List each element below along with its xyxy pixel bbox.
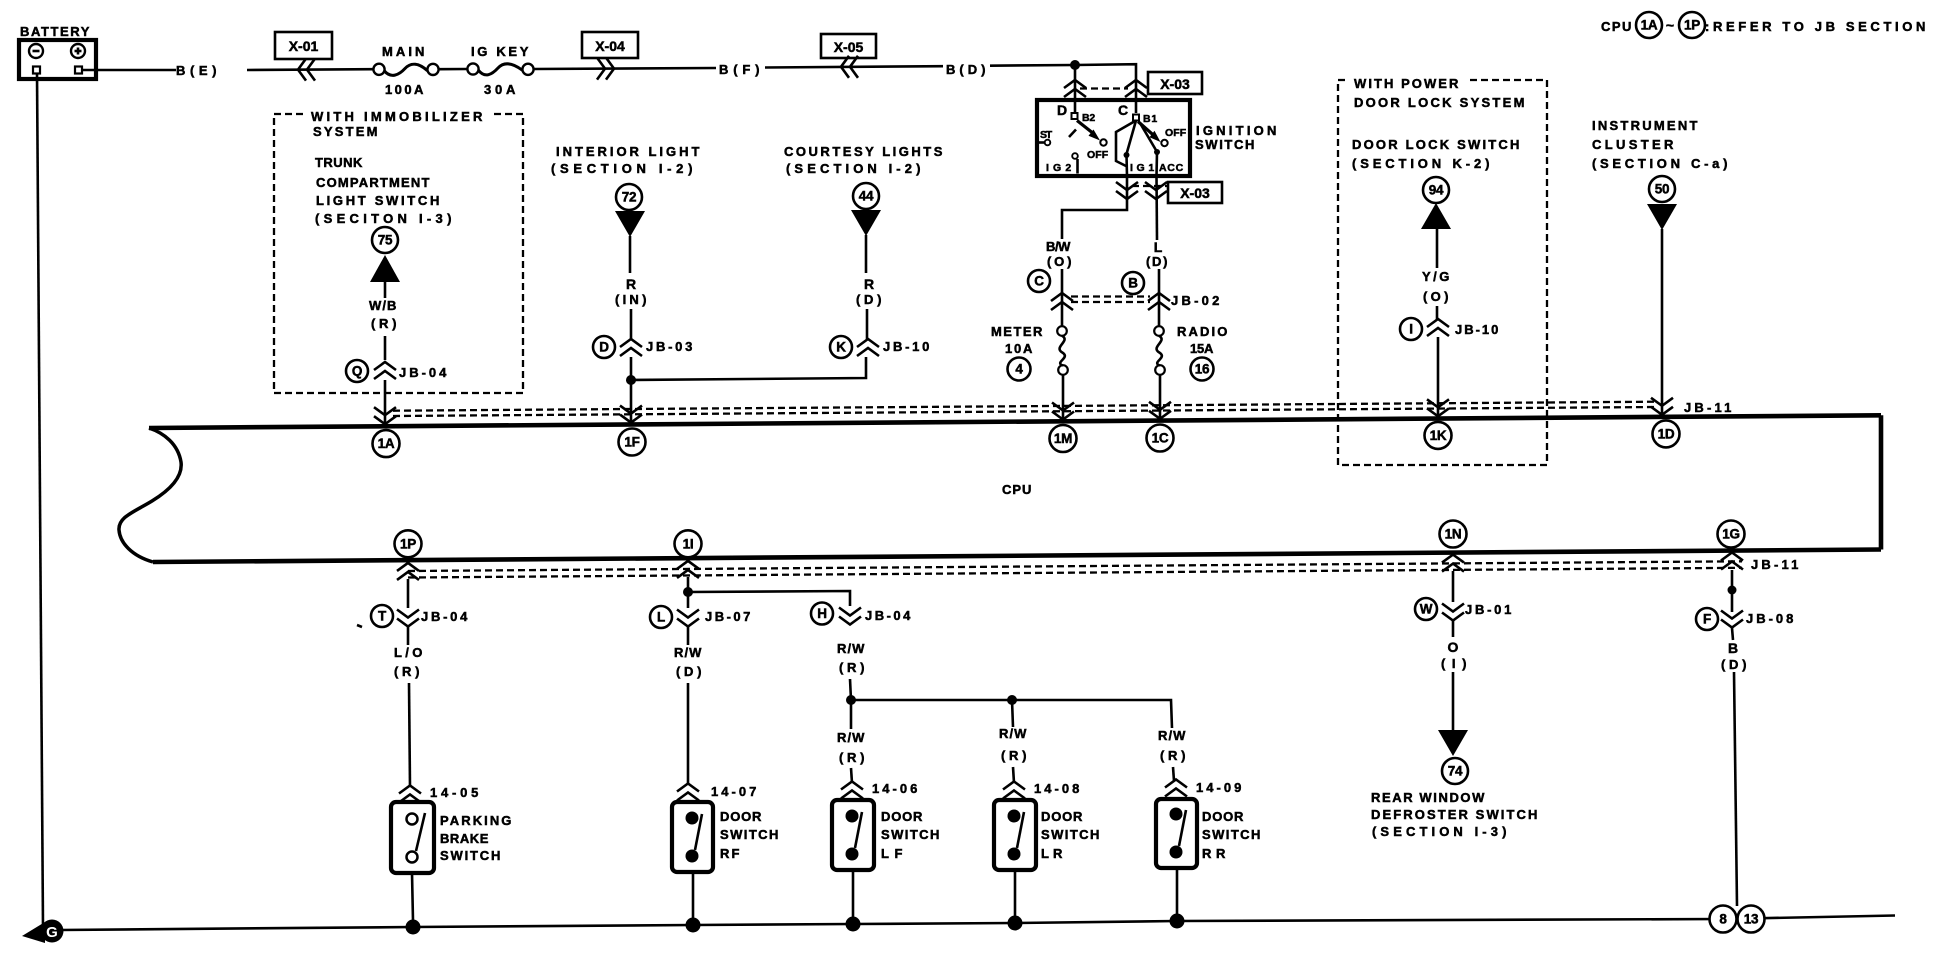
svg-text:JB-04: JB-04 xyxy=(865,608,913,623)
wire Y/G (O) label xyxy=(1422,269,1452,304)
off-page circle 94 xyxy=(1423,177,1449,203)
svg-text:14-09: 14-09 xyxy=(1196,780,1244,795)
CPU pin 1M xyxy=(1050,425,1077,452)
wire LF to switch xyxy=(851,768,852,783)
junction dot 1G column xyxy=(1728,586,1737,595)
arrow up to door lock switch xyxy=(1421,203,1451,229)
svg-text:R: R xyxy=(626,276,636,292)
svg-text:SWITCH: SWITCH xyxy=(1202,827,1263,842)
svg-text:PARKING: PARKING xyxy=(440,813,514,828)
CPU pin 1D xyxy=(1653,420,1680,447)
svg-text:L/O: L/O xyxy=(394,645,425,660)
svg-text:JB-04: JB-04 xyxy=(399,365,449,380)
wire door lock column upper xyxy=(1436,229,1439,320)
svg-text:C: C xyxy=(1118,102,1128,118)
wire 1P column to switch xyxy=(409,683,410,787)
junction node LF xyxy=(846,695,856,705)
wire LF column xyxy=(850,700,853,729)
connector 14-09 xyxy=(1165,780,1244,797)
svg-text:JB-11: JB-11 xyxy=(1684,400,1734,415)
label DOOR SWITCH LR xyxy=(1041,809,1102,861)
svg-text:INTERIOR LIGHT: INTERIOR LIGHT xyxy=(556,144,702,159)
door switch LF S3 xyxy=(832,800,874,870)
svg-text:(O): (O) xyxy=(1047,254,1074,269)
svg-text:1M: 1M xyxy=(1054,431,1072,446)
off-page circle 75 xyxy=(372,227,398,253)
connector H JB-04 xyxy=(811,603,913,625)
battery plus terminal xyxy=(71,44,85,74)
arrow down from courtesy lights xyxy=(851,210,881,236)
svg-text:OFF: OFF xyxy=(1087,149,1109,161)
wire branch to LR RR columns xyxy=(851,700,1172,728)
svg-text:(SECTION I-2): (SECTION I-2) xyxy=(551,161,695,176)
svg-text:14-08: 14-08 xyxy=(1034,781,1082,796)
svg-text:B2: B2 xyxy=(1082,112,1096,124)
CPU pin 1P xyxy=(395,530,422,557)
svg-text:ACC: ACC xyxy=(1159,162,1184,174)
label INTERIOR LIGHT xyxy=(551,144,702,176)
internal wiring to IG1 xyxy=(1116,121,1155,177)
svg-text:JB-03: JB-03 xyxy=(646,339,695,354)
switch lever 2 (B1 to OFF) xyxy=(1138,122,1187,147)
fuse IG KEY 30A xyxy=(467,44,533,97)
fuse MAIN 100A xyxy=(373,44,438,97)
svg-text:SYSTEM: SYSTEM xyxy=(313,124,380,139)
wire to B(F) xyxy=(534,68,716,69)
svg-text::REFER TO JB SECTION: :REFER TO JB SECTION xyxy=(1705,19,1928,34)
wire door LR to ground bus xyxy=(1014,870,1017,917)
svg-text:JB-08: JB-08 xyxy=(1746,611,1796,626)
wire L/O (R) label xyxy=(394,645,425,679)
wire door RF to ground bus xyxy=(692,872,695,919)
wire 1N column upper xyxy=(1452,571,1455,637)
dashed box: WITH IMMOBILIZER SYSTEM xyxy=(274,104,523,393)
label TRUNK COMPARTMENT LIGHT SWITCH xyxy=(315,155,454,226)
wire METER fuse to CPU 1M xyxy=(1062,375,1065,420)
bus chevron 1G xyxy=(1721,553,1743,570)
svg-text:X-04: X-04 xyxy=(595,38,625,54)
bus chevron 1A xyxy=(374,407,396,424)
ground bus wire xyxy=(60,916,1895,931)
label DOOR SWITCH RF xyxy=(720,809,781,861)
svg-text:1G: 1G xyxy=(1722,527,1739,542)
svg-text:74: 74 xyxy=(1448,764,1463,779)
svg-text:B1: B1 xyxy=(1143,113,1158,125)
svg-text:(R): (R) xyxy=(839,750,867,765)
svg-text:JB-02: JB-02 xyxy=(1171,293,1222,308)
ignition switch box U1 xyxy=(1037,100,1279,176)
ground G xyxy=(22,920,64,944)
svg-text:(O): (O) xyxy=(1423,289,1451,304)
stray mark xyxy=(357,625,362,627)
wire 1P column upper xyxy=(407,579,410,645)
wire 1I column upper xyxy=(687,577,690,645)
svg-text:RADIO: RADIO xyxy=(1177,324,1230,339)
wire LR to switch xyxy=(1013,767,1014,783)
svg-text:4: 4 xyxy=(1015,362,1023,377)
wire R/W (R) label RR xyxy=(1158,728,1188,763)
svg-text:D: D xyxy=(599,340,609,355)
svg-text:14-07: 14-07 xyxy=(711,784,759,799)
door switch RR S5 xyxy=(1156,799,1197,868)
svg-text:W/B: W/B xyxy=(369,298,399,313)
svg-text:1A: 1A xyxy=(378,436,395,451)
svg-text:R/W: R/W xyxy=(837,730,867,745)
wire 1N column to defroster xyxy=(1452,672,1455,731)
note: CPU 1A-1P refer to JB section xyxy=(1601,12,1928,38)
junction dot door RR xyxy=(1170,914,1185,929)
pin B1 terminal xyxy=(1133,113,1158,125)
svg-text:16: 16 xyxy=(1195,362,1210,377)
svg-text:15A: 15A xyxy=(1190,341,1216,356)
svg-text:R/W: R/W xyxy=(674,645,704,660)
label PARKING BRAKE SWITCH xyxy=(440,813,514,863)
svg-text:Y/G: Y/G xyxy=(1422,269,1452,284)
wire IG1 output to B/W column xyxy=(1062,176,1127,239)
wire H column to branch xyxy=(850,679,851,700)
fuse METER 10A xyxy=(991,324,1068,375)
svg-text:JB-01: JB-01 xyxy=(1465,602,1514,617)
svg-text:(D): (D) xyxy=(1721,657,1749,672)
svg-text:1P: 1P xyxy=(1684,18,1700,33)
svg-text:(D): (D) xyxy=(856,292,884,307)
svg-text:COURTESY LIGHTS: COURTESY LIGHTS xyxy=(784,144,945,159)
wire B(D) to ignition switch xyxy=(990,64,1136,100)
parking brake switch S1 xyxy=(391,802,434,873)
bus chevron 1N xyxy=(1442,555,1464,572)
svg-text:X-03: X-03 xyxy=(1180,185,1210,201)
svg-text:LIGHT SWITCH: LIGHT SWITCH xyxy=(316,193,442,208)
wire RADIO fuse to CPU 1C xyxy=(1159,375,1162,420)
bus chevron 1P xyxy=(397,563,419,580)
svg-text:I: I xyxy=(1409,322,1412,337)
svg-text:G: G xyxy=(46,924,58,941)
wire L to RADIO fuse xyxy=(1158,269,1161,326)
svg-text:TRUNK: TRUNK xyxy=(315,155,365,170)
wire R/W (R) label LF xyxy=(837,730,867,765)
svg-text:X-01: X-01 xyxy=(289,38,319,54)
node L (D) label xyxy=(1146,239,1170,269)
pin IG2 terminal xyxy=(1046,153,1078,174)
arrow down to defroster switch xyxy=(1438,730,1468,756)
CPU pin 1C xyxy=(1147,425,1174,452)
arrow down from interior light xyxy=(615,211,645,237)
svg-text:DOOR: DOOR xyxy=(1202,809,1246,824)
arrow up to trunk switch xyxy=(370,255,400,282)
wire trunk column to 1A xyxy=(384,380,387,424)
CPU box right edge xyxy=(1879,415,1884,549)
svg-text:JB-10: JB-10 xyxy=(1455,322,1501,337)
svg-text:14-05: 14-05 xyxy=(430,785,481,800)
connector X-05 xyxy=(821,34,876,78)
connector D JB-03 xyxy=(593,336,695,358)
wire battery negative down to ground xyxy=(37,73,43,928)
svg-text:L: L xyxy=(657,610,665,625)
connector F JB-08 xyxy=(1696,608,1796,630)
svg-text:BRAKE: BRAKE xyxy=(440,831,491,846)
svg-text:REAR WINDOW: REAR WINDOW xyxy=(1371,790,1487,805)
wire to B(D) xyxy=(765,66,943,67)
svg-text:1C: 1C xyxy=(1152,431,1169,446)
X-03 upper dashed link xyxy=(1080,87,1128,89)
connector B JB-02 xyxy=(1122,272,1222,310)
svg-text:44: 44 xyxy=(859,189,874,204)
wire R (D) label xyxy=(856,276,884,307)
bus chevron 1K xyxy=(1427,399,1449,416)
junction dot door LF xyxy=(846,917,861,932)
svg-text:(R): (R) xyxy=(394,664,422,679)
label DOOR SWITCH RR xyxy=(1202,809,1263,861)
internal wiring to ACC xyxy=(1140,123,1184,176)
svg-text:DOOR: DOOR xyxy=(1041,809,1085,824)
svg-text:13: 13 xyxy=(1744,912,1759,927)
wire RR to switch xyxy=(1173,767,1174,781)
wire B(E) from battery to fuse xyxy=(82,68,373,71)
svg-text:(SECTION I-2): (SECTION I-2) xyxy=(786,161,923,176)
svg-text:JB-10: JB-10 xyxy=(883,339,932,354)
svg-text:O: O xyxy=(1448,639,1459,655)
wire between fuses xyxy=(439,68,467,71)
connector C JB-02 xyxy=(1028,270,1073,310)
label COURTESY LIGHTS xyxy=(784,144,945,176)
svg-text:OFF: OFF xyxy=(1165,127,1187,139)
off-page circle 74 xyxy=(1442,758,1468,784)
svg-text:X-03: X-03 xyxy=(1160,76,1190,92)
junction node LR xyxy=(1007,695,1017,705)
svg-text:IG KEY: IG KEY xyxy=(471,44,531,59)
svg-text:DOOR: DOOR xyxy=(881,809,925,824)
svg-text:L: L xyxy=(1154,239,1163,255)
wire ACC output to L column xyxy=(1155,176,1158,240)
wire R (IN) label xyxy=(615,276,649,307)
bus chevron 1D xyxy=(1651,398,1673,415)
CPU box top line xyxy=(149,415,1881,428)
CPU pin 1A xyxy=(373,430,400,457)
connector circle 13 xyxy=(1738,906,1765,933)
svg-text:CLUSTER: CLUSTER xyxy=(1592,137,1676,152)
svg-text:R: R xyxy=(864,276,874,292)
svg-text:JB-04: JB-04 xyxy=(421,609,470,624)
svg-text:H: H xyxy=(817,606,826,621)
svg-text:94: 94 xyxy=(1429,183,1444,198)
connector W JB-01 xyxy=(1415,598,1514,621)
svg-text:BATTERY: BATTERY xyxy=(20,24,92,39)
CPU pin 1I xyxy=(675,530,702,557)
junction dot parking brake xyxy=(406,920,421,935)
svg-text:COMPARTMENT: COMPARTMENT xyxy=(316,175,432,190)
svg-text:T: T xyxy=(378,609,387,624)
svg-text:SWITCH: SWITCH xyxy=(881,827,942,842)
svg-text:F: F xyxy=(1703,612,1711,627)
svg-text:1I: 1I xyxy=(683,536,694,551)
junction node 1I branch xyxy=(683,587,693,597)
connector T JB-04 xyxy=(371,605,470,627)
wire interior column to 1F xyxy=(630,357,633,422)
wire trunk column upper xyxy=(384,282,387,360)
svg-text:(D): (D) xyxy=(1146,254,1170,269)
connector 14-07 xyxy=(677,784,759,801)
connector X-03 upper xyxy=(1064,72,1202,97)
wire instrument column xyxy=(1661,229,1664,413)
connector X-03 lower xyxy=(1116,182,1222,203)
dashed box: WITH POWER DOOR LOCK SYSTEM xyxy=(1338,72,1547,465)
svg-text:B: B xyxy=(1728,640,1738,656)
wire B (D) label xyxy=(1721,640,1749,672)
svg-text:1D: 1D xyxy=(1658,426,1675,441)
svg-text:R/W: R/W xyxy=(837,641,867,656)
label WITH POWER DOOR LOCK SYSTEM xyxy=(1354,76,1527,110)
svg-text:DEFROSTER SWITCH: DEFROSTER SWITCH xyxy=(1371,807,1540,822)
wire R/W (D) label RF xyxy=(674,645,704,679)
svg-text:(I): (I) xyxy=(1441,656,1469,671)
svg-text:(R): (R) xyxy=(1001,748,1029,763)
svg-text:(D): (D) xyxy=(676,664,704,679)
svg-text:W: W xyxy=(1420,602,1433,617)
svg-text:SWITCH: SWITCH xyxy=(1041,827,1102,842)
pin ST terminal xyxy=(1037,129,1053,145)
connector 14-06 xyxy=(841,781,920,799)
svg-text:JB-07: JB-07 xyxy=(705,609,753,624)
svg-text:DOOR LOCK SWITCH: DOOR LOCK SWITCH xyxy=(1352,137,1522,152)
svg-text:(R): (R) xyxy=(1160,748,1188,763)
junction dot door RF xyxy=(686,918,701,933)
svg-text:R/W: R/W xyxy=(999,726,1029,741)
svg-text:(R): (R) xyxy=(839,660,867,675)
bus chevrons 1M 1C xyxy=(1052,402,1171,420)
svg-text:72: 72 xyxy=(622,190,636,205)
connector X-04 xyxy=(582,32,638,80)
bus chevron 1I xyxy=(677,561,699,578)
svg-text:1P: 1P xyxy=(400,536,416,551)
label DOOR SWITCH LF xyxy=(881,809,942,861)
label DOOR LOCK SWITCH xyxy=(1352,137,1522,171)
wire B/W to METER fuse xyxy=(1061,269,1064,326)
svg-text:RF: RF xyxy=(720,846,742,861)
JB-11 lower dashed bus xyxy=(408,561,1742,577)
svg-text:10A: 10A xyxy=(1005,341,1035,356)
svg-text:R/W: R/W xyxy=(1158,728,1188,743)
wire stubs into ignition box xyxy=(1074,100,1077,112)
svg-text:Q: Q xyxy=(352,364,362,379)
svg-text:METER: METER xyxy=(991,324,1045,339)
CPU pin 1G xyxy=(1718,521,1745,548)
wire door LF to ground bus xyxy=(852,870,855,918)
svg-text:(SECTION I-3): (SECTION I-3) xyxy=(1372,824,1509,839)
off-page circle 44 xyxy=(853,183,879,209)
connector 14-05 xyxy=(399,785,481,803)
svg-text:(R): (R) xyxy=(371,316,399,331)
CPU pin 1F xyxy=(619,429,646,456)
svg-text:LR: LR xyxy=(1041,846,1065,861)
svg-text:1N: 1N xyxy=(1445,527,1462,542)
connector 14-08 xyxy=(1003,781,1082,799)
wire O (I) label xyxy=(1441,639,1469,671)
battery box xyxy=(19,24,96,79)
connector circle 8 xyxy=(1710,906,1737,933)
fuse circle 16 xyxy=(1191,358,1214,381)
svg-text:MAIN: MAIN xyxy=(382,44,427,59)
label REAR WINDOW DEFROSTER SWITCH xyxy=(1371,790,1540,839)
CPU pin 1N xyxy=(1440,521,1467,548)
wire R/W (R) label H upper xyxy=(837,641,867,675)
connector Q JB-04 xyxy=(346,360,449,382)
svg-text:SWITCH: SWITCH xyxy=(1195,137,1257,152)
wire door lock column to 1K xyxy=(1437,337,1440,416)
CPU pin 1K xyxy=(1425,422,1452,449)
pin B2 terminal xyxy=(1072,112,1097,124)
svg-text:(SECTION C-a): (SECTION C-a) xyxy=(1592,156,1730,171)
svg-text:SWITCH: SWITCH xyxy=(720,827,781,842)
wire 1G column upper xyxy=(1732,570,1733,640)
junction node interior/courtesy xyxy=(626,375,636,385)
svg-text:B(D): B(D) xyxy=(946,62,988,77)
wire R/W (R) label LR xyxy=(999,726,1029,763)
svg-text:WITH POWER: WITH POWER xyxy=(1354,76,1461,91)
connector K JB-10 xyxy=(830,336,932,358)
svg-text:C: C xyxy=(1034,274,1044,289)
wire branch to H column xyxy=(688,591,850,606)
svg-text:(SECITON I-3): (SECITON I-3) xyxy=(315,211,454,226)
svg-text:~: ~ xyxy=(1666,17,1674,33)
wire door RR to ground bus xyxy=(1176,868,1179,915)
svg-text:30A: 30A xyxy=(484,82,518,97)
junction dot at B(D) xyxy=(1070,60,1080,70)
wire courtesy branch xyxy=(631,357,866,380)
fuse circle 4 xyxy=(1008,358,1031,381)
svg-text:X-05: X-05 xyxy=(834,39,864,55)
battery minus terminal xyxy=(29,44,43,74)
JB-02 dashed link xyxy=(1071,297,1150,303)
off-page circle 72 xyxy=(616,184,642,210)
wire 1I column to switch xyxy=(687,683,690,785)
svg-text:50: 50 xyxy=(1655,182,1669,197)
svg-text:CPU: CPU xyxy=(1601,19,1634,34)
svg-text:WITH IMMOBILIZER: WITH IMMOBILIZER xyxy=(311,109,485,124)
connector X-01 xyxy=(275,32,332,81)
svg-text:SWITCH: SWITCH xyxy=(440,848,503,863)
svg-text:CPU: CPU xyxy=(1002,482,1034,497)
svg-text:1F: 1F xyxy=(624,435,639,450)
svg-text:(SECTION K-2): (SECTION K-2) xyxy=(1352,156,1492,171)
svg-text:1K: 1K xyxy=(1430,428,1447,443)
wire W/B (R) label xyxy=(369,298,399,331)
svg-text:DOOR LOCK SYSTEM: DOOR LOCK SYSTEM xyxy=(1354,95,1527,110)
X-03 lower dashed link xyxy=(1132,185,1167,187)
connector L JB-07 xyxy=(650,606,753,628)
node B/W (O) label xyxy=(1046,239,1074,269)
wire junction into ignition xyxy=(1074,65,1077,100)
label INSTRUMENT CLUSTER xyxy=(1592,118,1730,171)
svg-text:75: 75 xyxy=(378,233,393,248)
svg-text:D: D xyxy=(1057,102,1067,118)
door switch RF S2 xyxy=(672,802,713,872)
wire interior column upper xyxy=(630,236,631,339)
JB-11 upper dashed bus xyxy=(393,402,1657,416)
fuse RADIO 15A xyxy=(1154,324,1230,375)
svg-text:B/W: B/W xyxy=(1046,239,1073,254)
wire parking brake to ground bus xyxy=(412,873,413,921)
svg-text:INSTRUMENT: INSTRUMENT xyxy=(1592,118,1700,133)
svg-text:1A: 1A xyxy=(1641,18,1658,33)
off-page circle 50 xyxy=(1649,176,1675,202)
wire 1G column down to ground bus xyxy=(1734,672,1737,906)
svg-text:JB-11: JB-11 xyxy=(1751,557,1801,572)
switch lever 1 (B2 to OFF) xyxy=(1069,121,1109,162)
connector I JB-10 xyxy=(1400,318,1501,340)
CPU box bottom line xyxy=(153,550,1881,563)
junction dot door LR xyxy=(1008,916,1023,931)
wire courtesy column upper xyxy=(866,235,867,339)
